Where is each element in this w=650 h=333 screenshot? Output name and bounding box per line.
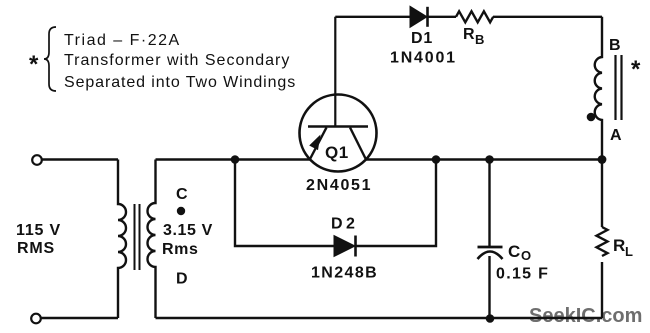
svg-text:R: R	[613, 236, 625, 255]
wire top horizontal left segment	[335, 16, 410, 18]
label 115 V RMS	[16, 222, 61, 257]
label 3.15 V Rms	[162, 222, 213, 258]
capacitor Co	[478, 160, 503, 319]
svg-text:D2: D2	[331, 216, 358, 233]
transistor Q1 emitter leg with arrow	[309, 128, 326, 161]
transformer T1 core	[135, 204, 140, 270]
svg-text:B: B	[475, 32, 484, 47]
junction node Co top	[485, 155, 494, 164]
transistor Q1 collector leg	[350, 128, 367, 161]
phasing dot winding A	[587, 113, 596, 122]
svg-text:0.15 F: 0.15 F	[496, 266, 549, 283]
terminal input bottom	[31, 314, 41, 324]
junction node Co bottom	[486, 314, 495, 323]
svg-text:A: A	[610, 127, 622, 144]
winding B-A right	[595, 17, 602, 160]
junction node D2 right	[432, 155, 441, 164]
svg-text:Triad – F·22A: Triad – F·22A	[64, 32, 181, 49]
svg-text:115 V: 115 V	[16, 222, 61, 239]
svg-text:O: O	[521, 248, 531, 263]
svg-text:*: *	[29, 51, 39, 78]
phasing dot secondary	[177, 207, 185, 215]
wire D2 branch left drop	[235, 160, 334, 247]
svg-text:R: R	[463, 26, 475, 43]
junction node D2 left	[231, 155, 240, 164]
resistor RB	[456, 11, 493, 22]
svg-text:RMS: RMS	[17, 240, 55, 257]
svg-text:1N248B: 1N248B	[311, 265, 378, 282]
label Co	[508, 242, 531, 263]
winding B-A core	[616, 55, 622, 120]
wire top right segment	[493, 16, 602, 18]
wire input bottom	[41, 317, 118, 319]
transformer T1 secondary winding (C-D)	[148, 160, 156, 319]
svg-text:D: D	[176, 271, 188, 288]
resistor RL	[597, 160, 608, 319]
label RB	[463, 26, 484, 47]
wire D2 branch right rise	[356, 160, 437, 247]
svg-text:Separated into Two Windings: Separated into Two Windings	[64, 74, 296, 91]
junction node RL top	[598, 155, 607, 164]
svg-text:L: L	[625, 244, 633, 259]
svg-text:B: B	[609, 37, 621, 54]
wire input top	[42, 158, 118, 160]
svg-text:3.15 V: 3.15 V	[163, 222, 213, 239]
svg-text:C: C	[176, 186, 188, 203]
svg-text:Q1: Q1	[325, 143, 349, 162]
wire top between D1 and RB	[428, 16, 457, 18]
wire mid horizontal	[156, 158, 603, 160]
svg-text:Rms: Rms	[162, 241, 198, 258]
wire bottom horizontal	[156, 317, 603, 319]
svg-text:Transformer with Secondary: Transformer with Secondary	[64, 52, 290, 69]
label RL	[613, 236, 633, 259]
terminal input top	[32, 155, 42, 165]
svg-text:C: C	[508, 242, 520, 261]
svg-text:*: *	[631, 56, 641, 83]
svg-text:2N4051: 2N4051	[306, 177, 372, 194]
transformer T1 primary winding	[118, 160, 126, 319]
diode D1	[410, 6, 428, 27]
transistor Q1 base/collector lead from top	[334, 17, 336, 128]
transistor Q1 circle	[300, 95, 377, 172]
diode D2	[334, 236, 356, 257]
svg-text:SeekIC.com: SeekIC.com	[529, 305, 642, 327]
annotation brace	[44, 27, 56, 91]
transistor Q1 base bar	[308, 125, 368, 128]
svg-text:1N4001: 1N4001	[390, 50, 457, 67]
svg-text:D1: D1	[411, 30, 433, 47]
